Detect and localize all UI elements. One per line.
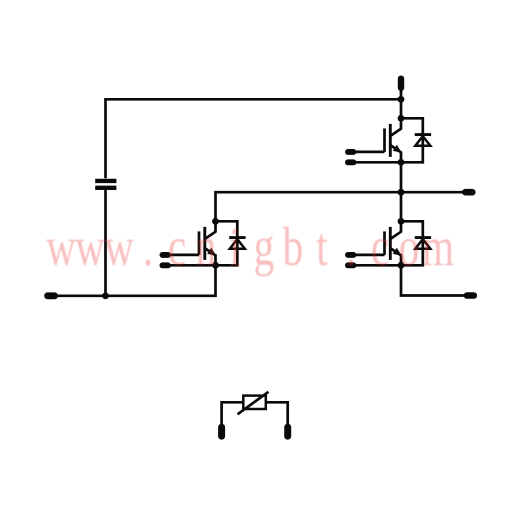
svg-text:c: c [371, 216, 389, 277]
transistor Q2 (top-right IGBT with diode) [345, 115, 431, 166]
node: junction J3 dot [398, 189, 405, 196]
svg-text:t: t [316, 216, 328, 277]
capacitor C1 top plate [95, 179, 116, 183]
terminal pin T2 (left DC terminal) [44, 292, 58, 299]
svg-text:.: . [346, 216, 356, 277]
wire: bottom-left bus and riser to Q1 emitter [50, 265, 216, 296]
wire: T1 to J1 [400, 90, 403, 99]
node: junction J2 dot [102, 292, 109, 299]
svg-text:w: w [75, 216, 105, 277]
svg-text:i: i [229, 216, 240, 277]
terminal pin T1 (top DC+ terminal) [398, 76, 404, 92]
wire: thermistor right lead [266, 402, 288, 424]
svg-text:n: n [196, 216, 217, 277]
terminal pin T4 (bottom-right terminal) [464, 292, 477, 299]
terminal pin T3 (mid AC terminal) [462, 189, 476, 196]
wire: J1 down to Q2 collector [400, 99, 403, 118]
thermistor R1 body box [243, 396, 265, 409]
wire: Q2 emitter down to J3 [400, 162, 403, 192]
transistor Q3 (bottom-right IGBT with diode) [345, 218, 431, 269]
svg-text:w: w [46, 216, 76, 277]
wire: J3 down to Q3 collector [400, 192, 403, 221]
wire: left rail lower vertical [104, 189, 107, 295]
transistor Q1 (left IGBT with diode) [160, 218, 246, 269]
wire: thermistor left lead [222, 402, 244, 424]
svg-text:w: w [104, 216, 134, 277]
terminal pin R1 left [218, 424, 225, 440]
node: junction J1 dot [398, 96, 405, 103]
wire: top bus from capacitor up and over to J1 [106, 99, 402, 178]
svg-text:c: c [168, 216, 186, 277]
svg-text:o: o [399, 216, 420, 277]
wire: Q1 collector riser and mid bus horizontal [216, 192, 469, 221]
svg-text:g: g [254, 216, 275, 277]
watermark www.cnigbt.com [46, 216, 454, 277]
svg-text:.: . [143, 216, 153, 277]
svg-text:b: b [283, 216, 304, 277]
terminal pin R1 right [284, 424, 291, 440]
thermistor R1 slash [238, 392, 269, 415]
capacitor C1 bottom plate [95, 186, 116, 190]
wire: Q3 emitter down and right to T4 [401, 265, 469, 295]
svg-text:m: m [422, 216, 454, 277]
